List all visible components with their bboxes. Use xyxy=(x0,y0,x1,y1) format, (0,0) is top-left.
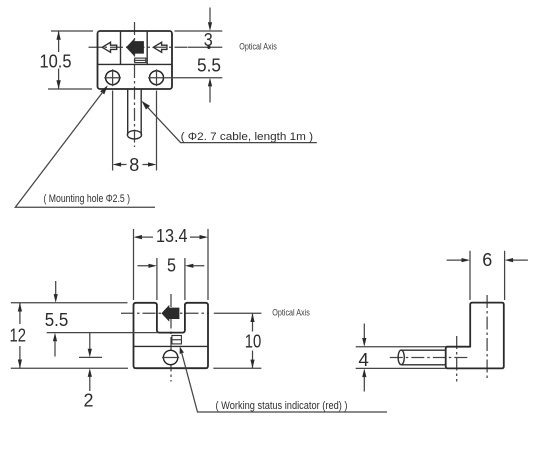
dimension 6 xyxy=(447,259,528,261)
side view cable entry centerline xyxy=(456,336,458,382)
svg-text:Optical Axis: Optical Axis xyxy=(239,42,277,53)
svg-text:2: 2 xyxy=(84,390,94,410)
svg-text:5: 5 xyxy=(167,256,176,276)
svg-text:( Φ2. 7 cable, length 1m ): ( Φ2. 7 cable, length 1m ) xyxy=(181,131,314,143)
svg-text:4: 4 xyxy=(358,350,369,370)
svg-text:12: 12 xyxy=(10,326,27,346)
front view optical axis centerline xyxy=(121,312,209,314)
svg-text:10.5: 10.5 xyxy=(40,52,72,72)
dimension 4 extension lines xyxy=(356,347,446,369)
dimension 10 xyxy=(252,313,254,368)
front view parting line xyxy=(134,345,209,347)
side view body centerline xyxy=(486,295,488,380)
svg-text:( Mounting hole Φ2.5 ): ( Mounting hole Φ2.5 ) xyxy=(44,193,131,205)
top view body outline xyxy=(98,31,173,89)
dimension 13.4 xyxy=(134,235,143,239)
dimension 2 xyxy=(89,333,91,350)
side view cable centerline xyxy=(390,357,468,359)
svg-text:5.5: 5.5 xyxy=(45,310,69,330)
svg-text:6: 6 xyxy=(482,250,492,270)
front view indicator window xyxy=(172,336,182,344)
dimension 13.4 extension lines xyxy=(134,229,209,300)
svg-text:8: 8 xyxy=(129,155,139,175)
top view cable xyxy=(128,89,142,135)
top view optical axis centerline xyxy=(89,46,189,48)
dimension 12 extension lines xyxy=(11,303,128,368)
dimension 8 xyxy=(113,162,122,166)
top view slot divider left wall xyxy=(120,31,122,64)
dimension 2 reference line xyxy=(79,356,102,358)
dimension 5 extension lines xyxy=(157,258,185,300)
top view horizontal divider xyxy=(98,63,173,65)
dimension 4 xyxy=(363,324,365,339)
dimension 12 xyxy=(19,303,21,368)
svg-text:10: 10 xyxy=(245,331,262,351)
cable leader xyxy=(142,101,151,110)
front view indicator hole xyxy=(163,350,177,364)
dimension 3 arrow xyxy=(209,8,211,23)
working status indicator leader xyxy=(180,347,184,354)
mounting hole leader xyxy=(100,85,108,94)
svg-text:( Working status indicator (re: ( Working status indicator (red) ) xyxy=(216,400,348,412)
svg-text:13.4: 13.4 xyxy=(156,226,188,246)
slot bottom reference line (5.5) xyxy=(47,332,157,334)
dimension 5.5 (front view) xyxy=(55,281,57,295)
front view black optical arrow xyxy=(161,305,179,322)
dimension 3 extension line xyxy=(175,30,223,32)
front view vertical centerline xyxy=(170,294,172,382)
top view black optical arrow xyxy=(126,39,144,57)
top view vertical centerline xyxy=(134,22,136,147)
top view right receiver outline arrow xyxy=(153,42,167,52)
dimension 10 bottom extension xyxy=(213,367,261,369)
svg-text:Optical Axis: Optical Axis xyxy=(272,308,310,319)
right hole crosshair extension (5.5 reference) xyxy=(148,77,222,79)
top view indicator window xyxy=(135,58,146,63)
dimension 6 extension lines xyxy=(470,251,505,300)
dimension 3 reference dot xyxy=(207,46,210,49)
svg-text:5.5: 5.5 xyxy=(197,56,221,76)
dimension 5 xyxy=(138,265,205,267)
dimension 8 extension lines xyxy=(113,91,157,171)
top view left emitter outline arrow xyxy=(102,42,117,52)
dimension 10.5 xyxy=(58,31,60,89)
top view right mounting hole xyxy=(150,71,164,85)
top view left mounting hole xyxy=(106,71,120,85)
top view slot divider right wall xyxy=(146,31,148,64)
front view body outline with slot xyxy=(134,303,209,368)
dimension 10.5 extension lines xyxy=(48,31,93,89)
side view cable xyxy=(401,350,446,365)
side view body outline xyxy=(446,303,504,369)
